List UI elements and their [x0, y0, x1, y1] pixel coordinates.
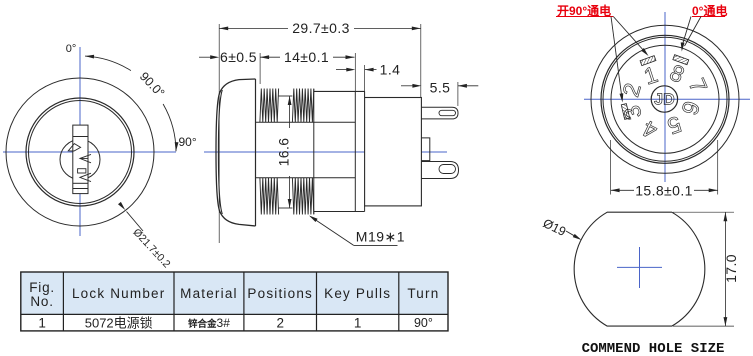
- key ward mark 1: [68, 144, 80, 151]
- rear digit 2: [617, 80, 646, 99]
- svg-text:5072电源锁: 5072电源锁: [85, 316, 153, 331]
- label 90.0 degrees rotated: [137, 69, 167, 100]
- front view bezel outer ring: [26, 98, 134, 206]
- table header Turn: [407, 286, 439, 301]
- thread end line: [313, 89, 315, 214]
- terminal pad top-right: [673, 55, 689, 65]
- dimension 14: [260, 49, 355, 91]
- hole crosshair: [617, 247, 662, 288]
- caption COMMEND HOLE SIZE: [582, 341, 725, 356]
- thread top band: [260, 89, 314, 123]
- svg-text:1: 1: [38, 316, 46, 331]
- hole shape: [574, 212, 705, 326]
- rear digit 4: [638, 115, 661, 144]
- label 90 degrees: [179, 135, 197, 149]
- svg-text:90°: 90°: [414, 316, 433, 330]
- svg-text:90°: 90°: [179, 135, 197, 149]
- svg-text:29.7±0.3: 29.7±0.3: [292, 20, 350, 36]
- dimension 16.6 rotated: [276, 96, 292, 208]
- bottom terminal: [421, 162, 458, 179]
- svg-text:Lock Number: Lock Number: [72, 286, 165, 301]
- dimension 1.4: [336, 62, 400, 98]
- svg-text:Positions: Positions: [247, 286, 313, 301]
- svg-text:Material: Material: [180, 286, 238, 301]
- label 0 tong dian: [692, 3, 727, 18]
- svg-text:1.4: 1.4: [380, 62, 401, 78]
- svg-text:15.8±0.1: 15.8±0.1: [635, 183, 693, 199]
- table header Material: [180, 286, 238, 301]
- svg-text:Fig.: Fig.: [29, 280, 55, 295]
- leaders to top-right pad: [681, 17, 701, 52]
- top terminal: [421, 107, 458, 119]
- svg-text:COMMEND HOLE SIZE: COMMEND HOLE SIZE: [582, 341, 725, 356]
- extension line cap face: [218, 24, 220, 243]
- svg-text:6±0.5: 6±0.5: [220, 49, 257, 65]
- dimension 5.5: [401, 80, 478, 107]
- switch housing: [365, 98, 422, 206]
- front view plug circle: [60, 140, 100, 180]
- terminal pad left: [621, 104, 629, 120]
- rear digit 3: [618, 102, 647, 124]
- svg-text:锌合金3#: 锌合金3#: [188, 316, 230, 330]
- rear outer circle: [591, 25, 739, 173]
- dimension 29.7: [219, 20, 421, 98]
- svg-text:Turn: Turn: [407, 286, 439, 301]
- front view bezel inner ring: [29, 101, 132, 204]
- side view centerline: [204, 151, 447, 153]
- table header Positions: [247, 286, 313, 301]
- rear view vertical centerline: [664, 12, 666, 182]
- rear ring inner: [603, 37, 727, 161]
- label diameter 21.7 with leader: [118, 202, 173, 271]
- key ward mark 2: [80, 154, 91, 162]
- table header Lock Number: [72, 286, 165, 301]
- rear digit 8: [666, 59, 689, 88]
- svg-text:5.5: 5.5: [430, 80, 451, 96]
- table header fill: [21, 272, 448, 314]
- svg-text:Key Pulls: Key Pulls: [324, 286, 391, 301]
- rear digit 5: [664, 111, 685, 140]
- front view vertical centerline: [79, 47, 81, 236]
- rear digit 6: [676, 98, 705, 119]
- arc 90.0 degrees with arrows: [85, 55, 179, 152]
- table header Fig No: [29, 280, 55, 309]
- cap dome: [216, 79, 256, 226]
- JD circle: [651, 86, 677, 112]
- label kai 90 tong dian: [556, 3, 613, 18]
- thread bottom band: [260, 178, 314, 215]
- svg-text:1: 1: [354, 316, 362, 331]
- svg-text:14±0.1: 14±0.1: [284, 49, 329, 65]
- svg-text:0°通电: 0°通电: [692, 3, 727, 18]
- key ward mark 4: [80, 173, 91, 181]
- svg-text:JD: JD: [654, 92, 674, 109]
- table data row: [38, 316, 433, 331]
- dimension 17.0 rotated: [673, 212, 739, 326]
- rear digit 1: [641, 61, 661, 90]
- key body: [73, 125, 88, 194]
- middle terminal stub: [421, 138, 429, 161]
- svg-text:No.: No.: [30, 294, 53, 309]
- barrel after threads: [314, 91, 365, 211]
- label diameter 19 with leader: [541, 216, 582, 240]
- label M19*1 with leader: [309, 216, 405, 246]
- dimension 15.8: [611, 140, 718, 199]
- table frame: [21, 272, 448, 331]
- front view outer circle: [6, 78, 154, 226]
- label 0 degrees: [66, 43, 77, 55]
- rear ring outer: [601, 35, 729, 163]
- svg-text:M19∗1: M19∗1: [356, 229, 405, 245]
- leader to top-left pad: [613, 17, 648, 57]
- dimension 6: [199, 49, 257, 65]
- svg-text:0°: 0°: [66, 43, 77, 55]
- svg-text:开90°通电: 开90°通电: [557, 3, 611, 18]
- rear inner circle: [611, 45, 719, 153]
- svg-text:17.0: 17.0: [723, 254, 739, 283]
- svg-text:2: 2: [276, 316, 284, 331]
- key ward mark 3: [78, 169, 86, 173]
- leader to left pad: [611, 17, 623, 103]
- svg-text:16.6: 16.6: [276, 138, 292, 167]
- front view horizontal centerline: [3, 151, 176, 153]
- barrel core lines: [256, 122, 356, 177]
- rear digit 7: [684, 74, 713, 96]
- terminal pad top-left: [640, 56, 656, 66]
- table header Key Pulls: [324, 286, 391, 301]
- rear view horizontal centerline: [584, 98, 750, 100]
